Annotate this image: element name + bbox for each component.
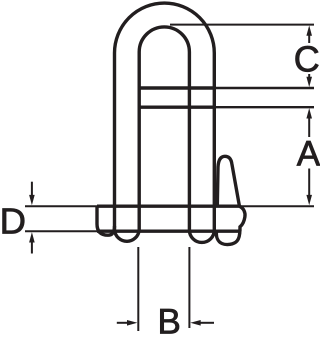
arrowhead C down <box>306 77 312 87</box>
shackle outer bow <box>115 3 215 230</box>
dim D shaft lower <box>31 241 33 254</box>
dim C shaft lower <box>308 74 310 79</box>
dim B shaft right <box>201 322 215 324</box>
key tab <box>217 156 239 206</box>
left leg rounded tip <box>115 230 140 241</box>
extension line crossbar upper to right <box>216 87 314 89</box>
extension line crossbar lower to right <box>216 106 314 108</box>
dim A shaft lower <box>308 169 310 197</box>
dim D shaft upper <box>31 182 33 197</box>
dim C shaft upper <box>308 34 310 43</box>
extension line pin top right <box>240 205 314 207</box>
crossbar lower edge <box>138 105 217 108</box>
arrowhead C up <box>306 25 312 35</box>
extension line pin top left <box>25 205 97 207</box>
arrowhead D up <box>29 232 35 242</box>
pin top edge <box>97 204 240 207</box>
pin head (left end) <box>97 206 115 235</box>
shackle inner bow (pin opening) <box>139 27 189 230</box>
arrowhead B left-pointing <box>190 320 200 326</box>
crossbar upper edge <box>138 86 217 89</box>
pin right end curve <box>240 206 246 231</box>
arrowhead A up <box>306 108 312 118</box>
right leg rounded tip <box>189 230 214 242</box>
extension line C top (from inner bow apex) <box>170 24 314 26</box>
pin end bottom lobe <box>216 230 240 245</box>
dim B shaft left <box>117 322 129 324</box>
pin bottom edge <box>97 229 240 232</box>
extension line B left <box>137 247 139 331</box>
arrowhead D down <box>29 195 35 205</box>
svg-text:C: C <box>294 39 320 80</box>
extension line B right <box>188 247 190 328</box>
dim A shaft upper <box>308 118 310 137</box>
svg-text:A: A <box>297 135 320 174</box>
extension line pin bottom left <box>25 230 97 232</box>
arrowhead B right-pointing <box>127 320 137 326</box>
svg-text:D: D <box>0 201 26 242</box>
svg-text:B: B <box>158 303 181 342</box>
arrowhead A down <box>306 195 312 205</box>
